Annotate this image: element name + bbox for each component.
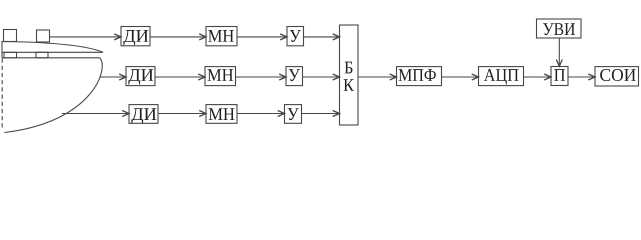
block U3 [285, 105, 302, 124]
label DI3 [131, 108, 156, 124]
wire P to SOI [568, 74, 595, 80]
antenna dish dashed axis [1, 59, 3, 130]
label DI1 [123, 30, 148, 46]
wire BK to MPF [358, 74, 397, 80]
label SOI [600, 69, 636, 81]
block SOI [595, 67, 639, 86]
wire MN3 to U3 [237, 111, 285, 117]
label U2 [289, 69, 300, 81]
antenna dish top edge [2, 57, 100, 59]
label ACP [484, 69, 519, 85]
antenna blade outline [2, 42, 103, 53]
wire dish to DI3 [62, 111, 129, 117]
block MN1 [206, 27, 237, 46]
wire ACP to P [524, 74, 552, 80]
mount bracket B2 [36, 52, 48, 58]
label MN1 [208, 30, 234, 42]
wire S2 to DI1 [50, 34, 122, 40]
block ACP [479, 67, 524, 86]
label MPF [399, 69, 436, 81]
block BK [340, 25, 359, 125]
block U2 [286, 67, 303, 86]
block DI2 [126, 67, 155, 86]
sensor square S2 [37, 30, 50, 42]
block P [551, 67, 568, 86]
label UVI [543, 23, 575, 35]
label BK line2 [344, 79, 354, 91]
block U1 [287, 27, 304, 46]
label MN2 [208, 69, 234, 81]
block UVI [537, 19, 582, 38]
label BK line1 [345, 62, 353, 74]
label U1 [290, 30, 301, 42]
wire DI3 to MN3 [158, 111, 206, 117]
block MPF [397, 67, 442, 86]
block DI1 [121, 27, 150, 46]
wire MN1 to U1 [237, 34, 287, 40]
wire U2 to BK [303, 74, 340, 80]
block DI3 [129, 105, 158, 124]
wire U3 to BK [302, 111, 340, 117]
antenna dish left joint [1, 52, 3, 58]
label DI2 [128, 69, 153, 85]
wire UVI to P [556, 38, 562, 66]
wire DI1 to MN1 [150, 34, 206, 40]
mount bracket B1 [4, 52, 17, 58]
wire MPF to ACP [442, 74, 479, 80]
label U3 [288, 108, 299, 120]
wire DI2 to MN2 [155, 74, 205, 80]
wire MN2 to U2 [236, 74, 287, 80]
antenna dish arc [4, 58, 102, 133]
sensor square S1 [4, 30, 17, 42]
wire U1 to BK [304, 34, 340, 40]
wire dish to DI2 [100, 74, 126, 80]
label MN3 [209, 108, 235, 120]
block MN2 [205, 67, 236, 86]
block MN3 [206, 105, 237, 124]
label P [554, 69, 565, 81]
